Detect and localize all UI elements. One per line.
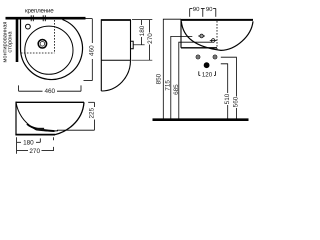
side front edge [130, 19, 132, 60]
dim 225 [57, 102, 94, 130]
basin outline (left edge + big front arc) [20, 20, 82, 80]
leader 715 [171, 36, 193, 118]
faucet hole [26, 24, 31, 29]
install left edge [180, 19, 182, 48]
drain fitting [37, 128, 45, 131]
leader 560 [221, 57, 237, 118]
front bottom edge [15, 134, 55, 136]
ext lines side dims [132, 20, 153, 61]
svg-text:180: 180 [139, 25, 146, 36]
svg-text:850: 850 [155, 73, 162, 84]
svg-text:270: 270 [147, 33, 154, 44]
dim 270 (front) [17, 137, 54, 150]
dim 460 vertical (right of plan) [84, 19, 93, 81]
side rim line [101, 19, 130, 21]
drain inner [40, 42, 45, 47]
drain outlet dot [204, 62, 210, 68]
hole symbol 2 [210, 39, 217, 43]
side mid line [101, 59, 130, 61]
install bowl arc [181, 21, 253, 50]
front bowl curve [16, 102, 58, 131]
svg-text:120: 120 [202, 71, 213, 78]
bowl circle [25, 26, 73, 74]
centre dashed line [216, 21, 218, 50]
svg-text:460: 460 [88, 45, 95, 56]
dim 180 (front) [17, 137, 41, 154]
dim 120 [199, 71, 216, 75]
front bowl curve thick part [27, 124, 55, 131]
svg-text:крепление: крепление [25, 8, 54, 15]
wall fixing hole left [196, 55, 200, 59]
dim 90+90 [190, 9, 216, 17]
svg-text:сторона: сторона [8, 31, 14, 53]
install bottom line [181, 47, 217, 49]
svg-text:90: 90 [193, 6, 200, 13]
dim 460 horizontal (below plan) [19, 85, 81, 91]
mounting ticks pair 1 [31, 15, 33, 21]
hidden edge dashed horizontal [21, 52, 55, 54]
svg-text:460: 460 [44, 88, 55, 95]
wall top line [6, 17, 86, 20]
mounting ticks pair 2 [43, 15, 45, 21]
dim 270 (side) [149, 20, 151, 61]
svg-text:685: 685 [173, 84, 180, 95]
mounting bracket [131, 41, 134, 48]
drain outer [38, 40, 46, 48]
hidden edge dashed vertical [54, 20, 56, 53]
wall fixing hole right [213, 55, 217, 59]
install rim line [181, 19, 253, 21]
floor line [153, 118, 249, 121]
svg-text:270: 270 [29, 148, 40, 155]
dim 180 (side) [141, 20, 143, 45]
leader 850 [163, 19, 181, 118]
svg-text:715: 715 [164, 80, 171, 91]
side bottom arc [101, 60, 130, 91]
leader 510 [221, 64, 228, 119]
svg-text:510: 510 [224, 93, 231, 104]
front outer silhouette right limb [55, 102, 84, 134]
front rim line [16, 101, 84, 103]
wall left line [16, 17, 19, 62]
front left edge [15, 102, 17, 135]
svg-text:180: 180 [23, 140, 34, 147]
svg-text:560: 560 [233, 96, 240, 107]
leader 685 [179, 42, 213, 118]
svg-text:90: 90 [206, 6, 213, 13]
hole symbol 1 [198, 34, 205, 38]
svg-text:225: 225 [88, 107, 95, 118]
side back edge [100, 19, 102, 91]
